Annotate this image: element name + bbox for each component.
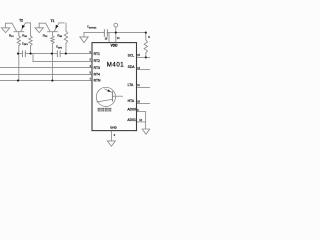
svg-text:BYPASS: BYPASS: [89, 26, 97, 29]
svg-text:SCL: SCL: [128, 54, 135, 58]
svg-text:HTA: HTA: [128, 99, 135, 103]
svg-text:RT4: RT4: [94, 72, 100, 76]
svg-text:GND: GND: [110, 125, 118, 129]
svg-text:AD00: AD00: [127, 108, 136, 112]
svg-text:T1: T1: [51, 19, 55, 23]
svg-text:VDD: VDD: [111, 44, 119, 48]
svg-text:T2: T2: [19, 19, 23, 23]
svg-text:RT1: RT1: [94, 52, 100, 56]
svg-text:SDA: SDA: [128, 65, 136, 69]
svg-text:LTA: LTA: [128, 83, 134, 87]
svg-text:R: R: [148, 35, 150, 39]
svg-text:M401: M401: [107, 61, 125, 68]
svg-text:RT2: RT2: [94, 59, 100, 63]
svg-text:RT3: RT3: [94, 66, 100, 70]
svg-text:RTN: RTN: [94, 79, 101, 83]
svg-text:AD01: AD01: [127, 118, 136, 122]
